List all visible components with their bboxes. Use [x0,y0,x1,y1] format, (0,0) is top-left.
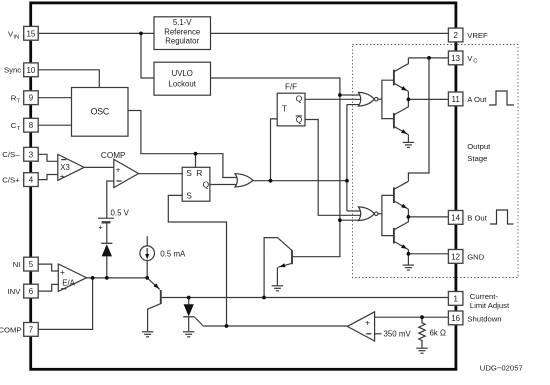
transistor Q5 B-stage upper (NPN) [394,181,409,217]
diode D1 [101,243,112,256]
wire VC to B stage [408,58,429,181]
wire pin 16 shutdown to comparator [375,316,449,318]
wire PWM vertical to NOR gates [346,105,348,211]
wire A output node to pin 11 [408,98,448,100]
svg-text:0.5 mA: 0.5 mA [160,249,186,258]
or-gate U2 (PWM steering) [235,174,253,187]
wire latch Q to OR gate [210,184,239,186]
wire current-limit base line to pin 1 [162,297,449,299]
battery 0.5 V reference [98,209,130,232]
pin 12 box (right) [448,250,463,264]
pin 16 box (right) [448,311,463,325]
wire F/F Qbar to NOR gate B [305,120,361,216]
node E/A output [91,276,95,280]
svg-text:+: + [60,267,65,277]
svg-text:S: S [186,168,192,178]
wire C/S- pin3 to X3 input [38,154,58,161]
node current source [145,276,149,280]
nor-gate A [358,92,378,106]
ground below R1 [416,348,427,353]
label RT [11,94,21,105]
resistor R1 6k [419,317,446,348]
svg-text:INV: INV [8,287,22,296]
flip-flop F/F [277,82,305,126]
node PWM/T [269,179,273,183]
transistor Q1 clamp (PNP) [147,278,161,331]
svg-text:C/S+: C/S+ [2,176,20,185]
svg-text:R: R [196,168,202,178]
svg-text:IN: IN [13,34,19,40]
svg-text:3: 3 [29,150,34,159]
svg-text:10: 10 [27,66,36,75]
node Q2 collector [262,296,266,300]
ground below Q2 [272,286,283,291]
svg-text:Shutdown: Shutdown [467,315,501,324]
node A output [407,98,411,102]
wire UVLO to NOR gate A top input [340,94,361,96]
svg-text:A Out: A Out [467,95,487,104]
wire COMP output to latch S [139,173,183,175]
node UVLO gate A [338,93,342,97]
svg-text:Limit Adjust: Limit Adjust [470,301,510,310]
wire VREF regulator output to pin 2 [211,32,449,34]
nor-gate B [358,207,378,221]
svg-text:Output: Output [467,142,491,151]
node D1 anode [105,276,109,280]
label B Out [467,213,488,222]
svg-text:6k Ω: 6k Ω [430,328,447,337]
svg-text:F/F: F/F [285,82,297,91]
label Shutdown [467,315,501,324]
svg-text:Lockout: Lockout [169,80,197,89]
wire NOR A output [378,98,382,100]
wire VIN pin15 to reference regulator [38,32,154,34]
current source 0.5 mA [140,246,186,261]
svg-text:E/A: E/A [62,278,75,287]
svg-text:C/S–: C/S– [2,150,20,159]
wire F/F Q to NOR gate A [305,98,361,100]
wire C/S+ pin4 to X3 input [38,175,58,180]
wire diode D1 to E/A output node [106,256,108,278]
op-amp E/A error amplifier [58,264,86,291]
pin 2 box (right) [448,28,463,42]
svg-text:5.1-V: 5.1-V [173,18,192,27]
node R1 top [420,315,424,319]
svg-text:Current-: Current- [470,292,499,301]
pin 9 box (left) [24,91,39,105]
waveform symbol A out [489,91,514,105]
wire shutdown comparator output line [203,325,347,327]
svg-text:8: 8 [29,121,34,130]
svg-text:0.5 V: 0.5 V [111,209,130,218]
block UVLO lockout [154,62,211,95]
node VC rail [427,56,431,60]
wire E/A output line [87,277,148,279]
wire CT pin8 to OSC [38,124,71,126]
svg-text:Q: Q [203,179,210,189]
svg-text:1: 1 [453,294,457,303]
transistor Q4 A-stage lower (NPN) [394,99,409,141]
wire E/A feedback to COMP pin7 [38,278,92,330]
pin 3 box (left) [24,147,39,161]
svg-text:Stage: Stage [467,154,487,163]
svg-text:+: + [60,171,65,181]
pin 4 box (left) [24,173,39,187]
label VREF [467,31,488,40]
svg-text:B Out: B Out [467,213,488,222]
wire X3 output to COMP comparator [84,166,114,168]
label UDG-02057 [480,363,523,372]
svg-text:+: + [116,164,121,174]
comparator shutdown (points left) [347,312,374,341]
wire PWM to NOR B top input [347,210,361,212]
ground below Q1 [142,332,153,337]
wire RT pin9 to OSC [38,97,71,99]
wire OSC output to latch R and OR gate [128,111,239,178]
svg-text:7: 7 [29,325,33,334]
label CT [11,121,21,132]
svg-text:12: 12 [451,252,460,261]
label INV [8,287,22,296]
comparator COMP [101,151,139,188]
zener diode D2 current-limit [183,298,203,332]
node B ground [407,252,411,256]
svg-text:T: T [282,103,287,113]
wire PWM to F/F T input [271,119,278,181]
label C/S- [2,150,20,159]
ground B-stage [403,265,414,270]
wire current source to node [146,261,148,278]
wire VIN branch to UVLO [141,33,154,78]
wire UVLO to NOR gate B input [340,219,361,221]
svg-text:5: 5 [29,260,34,269]
node latch S route [225,324,229,328]
ground A-stage [403,142,414,147]
label Current-Limit Adjust [470,292,510,310]
svg-text:COMP: COMP [101,151,126,160]
pin 10 box (left) [24,63,39,77]
node OSC to R [194,152,198,156]
svg-text:T: T [17,98,21,104]
svg-text:350 mV: 350 mV [384,330,412,339]
label GND [467,252,485,261]
wire B emitter node to pin 12 GND [408,253,448,255]
label Output Stage [467,142,491,163]
svg-text:T: T [17,126,21,132]
wire VC rail [408,57,448,59]
svg-text:Q: Q [296,94,303,104]
label A Out [467,95,487,104]
svg-text:4: 4 [29,176,34,185]
svg-text:GND: GND [467,252,485,261]
svg-text:+: + [365,317,370,327]
wire B output node to pin 14 [408,216,448,218]
wire current source stub [146,236,148,246]
wire NOR A to output transistor bases [382,80,393,118]
wire NOR B output [378,213,382,215]
svg-text:15: 15 [27,29,36,38]
pin 13 box (right) [448,51,463,65]
pin 14 box (right) [448,211,463,225]
svg-text:6: 6 [29,287,34,296]
node D2 anode [187,296,191,300]
label VIN [8,30,19,41]
wire battery to diode D1 [106,222,108,243]
waveform symbol B out [490,210,514,224]
label C/S+ [2,176,20,185]
pin 6 box (left) [24,284,39,298]
svg-text:NI: NI [13,260,21,269]
svg-text:UVLO: UVLO [172,69,193,78]
block 5.1-V reference regulator [154,17,211,50]
node VIN branch [139,32,143,36]
wire NI pin5 to E/A [38,264,58,271]
pin 5 box (left) [24,257,39,271]
svg-text:OSC: OSC [91,107,110,117]
ground below D2 [183,332,194,337]
amplifier X3 current sense [58,154,84,181]
pin 7 box (left) [24,323,39,337]
node B output [407,215,411,219]
label 350 mV threshold [375,330,412,339]
node UVLO gate B [338,218,342,222]
label COMP [0,325,21,334]
svg-text:2: 2 [453,31,457,40]
svg-text:VREF: VREF [467,31,488,40]
transistor Q6 B-stage lower (NPN) [394,217,409,254]
pin 1 box (right) [448,292,463,306]
wire PWM to NOR A bottom input [347,104,361,106]
svg-text:Reference: Reference [164,27,200,36]
pin 15 box (left) [24,26,39,40]
svg-text:Regulator: Regulator [165,37,199,46]
wire NOR B to output transistor bases [382,195,393,235]
svg-text:13: 13 [451,54,460,63]
svg-text:C: C [473,59,477,65]
node PWM vertical [345,179,349,183]
wire latch R input [195,154,197,168]
dashed output stage box [353,45,519,278]
wire B node to ground [407,254,409,265]
svg-text:Sync: Sync [4,65,21,74]
wire COMP inverting input to battery [107,181,114,218]
IC boundary (thick border) [31,3,456,369]
latch S-R [182,167,210,201]
transistor Q3 A-stage upper (NPN) [394,58,409,100]
svg-text:11: 11 [452,95,460,104]
wire UVLO output net [211,78,340,257]
block OSC oscillator [72,88,129,137]
label VC [467,54,477,65]
wire Sync pin10 to OSC [38,70,99,88]
wire OR gate output (PWM) line [253,180,347,182]
svg-text:14: 14 [451,213,460,222]
pin 11 box (right) [448,92,463,106]
svg-text:COMP: COMP [0,325,21,334]
transistor Q2 shutdown (NPN) [264,238,292,298]
svg-text:S: S [186,190,192,200]
pin 8 box (left) [24,118,39,132]
label Sync [4,65,21,74]
wire INV pin6 to E/A [38,284,58,291]
label NI [13,260,21,269]
svg-text:16: 16 [451,314,460,323]
wire latch bottom S from shutdown line [168,195,226,326]
svg-text:UDG−02057: UDG−02057 [480,363,523,372]
svg-text:+: + [98,223,103,232]
svg-text:9: 9 [29,94,34,103]
